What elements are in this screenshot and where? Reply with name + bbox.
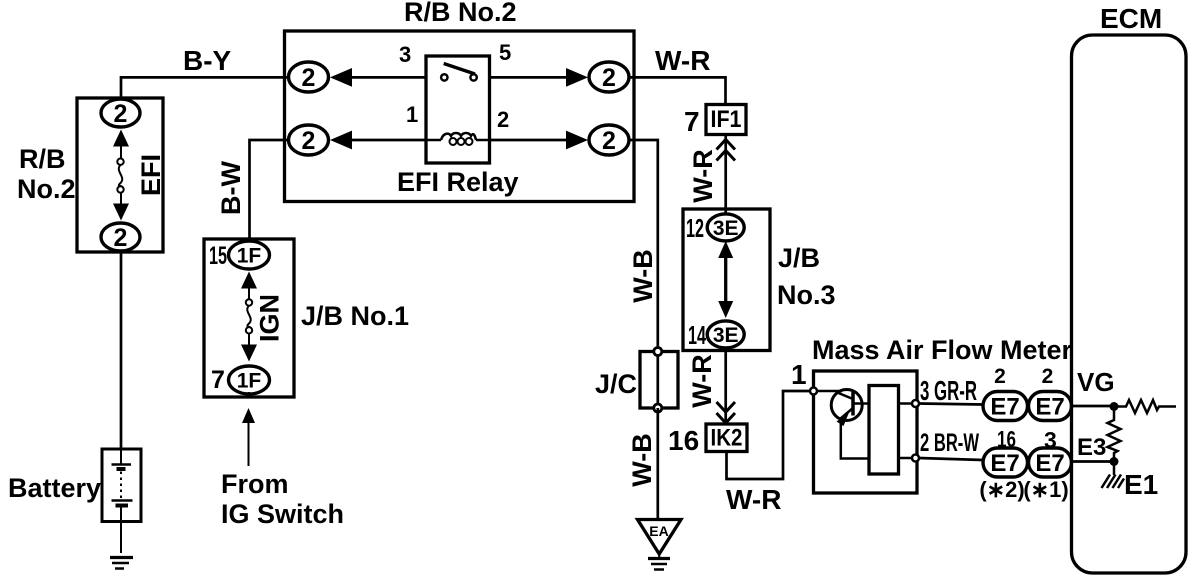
- junction dot E3: [1110, 457, 1119, 466]
- svg-text:W-R: W-R: [655, 45, 710, 76]
- ground E1: [1102, 462, 1125, 489]
- connector IF1: [706, 105, 746, 135]
- connector 1F (pin 15): [229, 241, 270, 269]
- connector 2 (top of EFI fuse): [101, 99, 140, 127]
- svg-text:W-B: W-B: [627, 433, 657, 486]
- svg-text:IF1: IF1: [711, 106, 742, 133]
- relay switch contacts: [441, 64, 477, 81]
- svg-text:W-R: W-R: [687, 354, 717, 407]
- MAF sensing element: [869, 386, 899, 475]
- J/B No.3 box: [683, 209, 770, 351]
- connector 3E (pin 14): [707, 321, 744, 348]
- ground (below battery): [110, 558, 133, 569]
- wire W-R from relay to IF1: [629, 77, 726, 104]
- connector IK2: [706, 424, 747, 452]
- svg-text:3E: 3E: [713, 217, 739, 240]
- svg-text:3: 3: [1044, 427, 1057, 453]
- resistor (horizontal, VG): [1114, 400, 1176, 413]
- relay coil: [426, 133, 490, 145]
- resistor (vertical, VG to E3): [1108, 407, 1121, 462]
- svg-text:2: 2: [302, 127, 316, 155]
- svg-text:1: 1: [791, 359, 807, 390]
- svg-text:3E: 3E: [713, 324, 739, 347]
- svg-text:7: 7: [211, 366, 225, 394]
- connector 2 (relay box bottom-right): [589, 125, 629, 155]
- svg-text:EA: EA: [649, 523, 668, 539]
- arrow from IG switch: [242, 408, 255, 466]
- R/B No.2 relay box: [285, 31, 635, 202]
- fuse IGN: [241, 272, 257, 362]
- svg-text:2: 2: [114, 100, 128, 128]
- svg-text:1: 1: [406, 102, 418, 127]
- connector E7 (pin 2, *1): [1029, 392, 1072, 421]
- connector 2 (relay box top-right): [589, 62, 629, 92]
- svg-text:7: 7: [684, 106, 700, 137]
- svg-text:16: 16: [997, 426, 1016, 452]
- svg-text:From: From: [221, 469, 289, 499]
- J/B No.1 box: [204, 239, 294, 397]
- svg-text:E7: E7: [1035, 394, 1064, 421]
- connector E7 (pin 16, *2): [983, 448, 1028, 477]
- svg-text:2: 2: [302, 64, 316, 92]
- wire pin5 to right oval with arrow: [490, 68, 589, 87]
- chevron arrows down to IK2: [717, 402, 736, 423]
- svg-text:E7: E7: [1035, 450, 1064, 477]
- wire W-R from IK2 to MAF pin 1: [727, 391, 811, 479]
- EFI relay inner box: [426, 56, 490, 163]
- svg-text:J/B No.1: J/B No.1: [301, 301, 409, 331]
- svg-text:IG Switch: IG Switch: [221, 499, 344, 529]
- node label From IG Switch: [221, 469, 344, 529]
- connector 2 (relay box bottom-left): [289, 125, 329, 155]
- connector 2 (relay box top-left): [289, 62, 329, 92]
- connector E7 (pin 2, *2): [983, 392, 1028, 421]
- svg-text:2: 2: [1042, 365, 1054, 388]
- junction J/C: [640, 348, 678, 413]
- wire B-W from relay to J/B No.1: [250, 140, 289, 239]
- pin 3 wire: [899, 402, 913, 405]
- svg-text:2: 2: [497, 107, 509, 132]
- node label R/B No.2 (left): [17, 144, 76, 204]
- svg-text:5: 5: [499, 40, 511, 65]
- svg-text:3: 3: [399, 42, 411, 67]
- pin 2 wire: [899, 457, 913, 460]
- double arrow in J/B No.3: [718, 241, 733, 318]
- wire W-R from J/B No.3 to IK2: [724, 348, 727, 424]
- svg-text:12: 12: [686, 213, 704, 243]
- svg-text:W-R: W-R: [688, 149, 718, 202]
- battery: [102, 449, 141, 553]
- svg-text:No.2: No.2: [17, 174, 76, 204]
- wire BR-W to E7: [919, 458, 983, 460]
- svg-text:2 BR-W: 2 BR-W: [920, 429, 979, 457]
- wire from fuse block to battery: [120, 251, 123, 449]
- junction dot VG: [1110, 402, 1119, 411]
- Mass Air Flow Meter box: [814, 371, 918, 493]
- svg-text:E7: E7: [990, 450, 1019, 477]
- ECM box: [1072, 35, 1187, 573]
- connector E7 (pin 3, *1): [1029, 448, 1072, 477]
- svg-text:E1: E1: [1124, 469, 1158, 500]
- svg-text:1F: 1F: [237, 370, 262, 393]
- wire W-R from IF1 to J/B No.3: [724, 135, 727, 215]
- node label J/B No.3: [777, 243, 836, 310]
- connector 3E (pin 12): [707, 214, 744, 241]
- chevron arrows up to IF1: [717, 140, 736, 161]
- svg-text:E7: E7: [990, 394, 1019, 421]
- ground EA: [638, 520, 682, 570]
- connector 2 (bottom of EFI fuse): [101, 223, 140, 251]
- svg-text:W-B: W-B: [628, 249, 658, 302]
- wire B-Y from EFI fuse to relay box: [121, 77, 288, 99]
- wire W-B from relay down: [629, 140, 658, 408]
- svg-text:E3: E3: [1077, 434, 1106, 461]
- svg-text:B-Y: B-Y: [183, 45, 232, 76]
- connector 1F (pin 7): [229, 366, 270, 394]
- svg-text:EFI: EFI: [136, 154, 166, 196]
- svg-text:14: 14: [688, 320, 706, 350]
- svg-text:B-W: B-W: [216, 161, 246, 215]
- svg-text:EFI Relay: EFI Relay: [397, 167, 519, 197]
- wire pin1 to oval with arrow: [330, 131, 426, 150]
- svg-text:16: 16: [668, 425, 699, 456]
- wire W-B from J/C to ground EA: [656, 408, 659, 519]
- svg-text:15: 15: [209, 242, 227, 270]
- wire GR-R to E7: [919, 404, 983, 405]
- svg-text:R/B: R/B: [19, 144, 66, 174]
- svg-text:Mass Air Flow Meter: Mass Air Flow Meter: [812, 335, 1073, 365]
- svg-text:ECM: ECM: [1100, 3, 1162, 34]
- wire pin2 to right oval with arrow: [490, 131, 589, 150]
- svg-text:IGN: IGN: [255, 294, 285, 342]
- transistor Q (MAF): [817, 390, 869, 459]
- svg-text:Battery: Battery: [8, 473, 101, 503]
- svg-text:(∗2): (∗2): [979, 477, 1024, 502]
- svg-text:3 GR-R: 3 GR-R: [920, 375, 977, 406]
- svg-text:W-R: W-R: [726, 484, 781, 515]
- svg-text:2: 2: [602, 127, 616, 155]
- fuse EFI: [113, 130, 129, 221]
- svg-text:VG: VG: [1077, 367, 1115, 397]
- svg-text:1F: 1F: [237, 245, 262, 268]
- svg-text:J/C: J/C: [595, 369, 637, 399]
- wire VG row inside ECM: [1072, 405, 1115, 408]
- svg-text:2: 2: [994, 365, 1006, 388]
- svg-text:R/B No.2: R/B No.2: [404, 0, 517, 27]
- wire pin3 to oval with arrow: [330, 68, 426, 87]
- svg-text:(∗1): (∗1): [1023, 477, 1068, 502]
- wire E3 row inside ECM: [1072, 460, 1115, 463]
- svg-text:2: 2: [114, 224, 128, 252]
- svg-text:IK2: IK2: [711, 425, 743, 452]
- svg-text:2: 2: [602, 64, 616, 92]
- svg-text:No.3: No.3: [777, 280, 836, 310]
- R/B No.2 fuse block box (left): [77, 98, 163, 252]
- svg-text:J/B: J/B: [778, 243, 820, 273]
